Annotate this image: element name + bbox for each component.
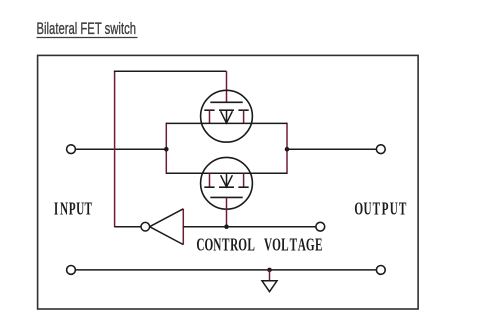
wire: right node to output terminal	[287, 148, 376, 150]
wire: control voltage line	[183, 226, 316, 228]
Q2 body arrow (pointing down to channel)	[226, 173, 228, 187]
Q1 gate plate	[210, 101, 242, 103]
Q2 drain contact vertical	[243, 173, 245, 187]
Q1 source contact vertical	[209, 110, 211, 123]
Q2 channel segment left	[204, 186, 214, 188]
wire: top gate feed horizontal to Q1 gate	[114, 70, 227, 72]
wire: inverter output to gate feed corner	[115, 226, 141, 228]
wire: bottom common rail	[76, 269, 377, 271]
schematic border frame (not a component)	[38, 55, 419, 309]
Q2 drain-source rail	[166, 172, 287, 174]
U1 triangle upper slant	[150, 209, 184, 227]
ground stub (vertical, maroon)	[269, 270, 271, 281]
transistor Q2 (bottom N-channel MOSFET)	[166, 157, 287, 226]
junction: output node dot	[285, 147, 290, 152]
transistor Q1 (top P-channel MOSFET)	[166, 71, 287, 142]
svg-text:INPUT: INPUT	[54, 200, 92, 219]
junction: input node dot	[164, 147, 169, 152]
Q2 gate lead (vertical, maroon)	[226, 197, 228, 226]
title link "Bilateral FET switch"	[37, 19, 138, 38]
Q1 channel segment middle	[219, 109, 234, 111]
U1 triangle lower slant	[150, 227, 184, 245]
Q2 source contact vertical	[209, 173, 211, 187]
Q1 body arrow (pointing down to rail)	[226, 110, 228, 123]
label INPUT	[54, 200, 92, 219]
Q1 channel segment left	[204, 109, 214, 111]
Q2 channel segment right	[238, 186, 248, 188]
terminal: bottom-left common (open circle)	[67, 266, 76, 275]
ground arrow triangle	[262, 281, 277, 292]
junction: ground node dot	[267, 268, 272, 273]
U1 triangle input edge (vertical, maroon)	[182, 209, 184, 245]
wire: right branch vertical (parallel pair, output side)	[286, 123, 288, 174]
wire: left branch vertical (parallel pair, input side)	[165, 123, 167, 174]
terminal: bottom-right common (open circle)	[376, 266, 385, 275]
Q2 body circle	[201, 157, 253, 209]
inverter U1 (NOT gate, pointing left)	[141, 209, 183, 245]
Q1 gate lead (vertical, maroon)	[226, 71, 228, 102]
wire: gate feed vertical from inverter output up to top rail	[114, 71, 116, 228]
label OUTPUT	[354, 200, 406, 219]
Q1 channel segment right	[238, 109, 248, 111]
terminal: INPUT (open circle)	[67, 145, 76, 154]
Q2 channel segment middle	[219, 186, 234, 188]
label CONTROL VOLTAGE	[196, 236, 322, 255]
terminal: CONTROL VOLTAGE (open circle)	[316, 222, 325, 231]
U1 output bubble	[141, 222, 150, 231]
svg-text:Bilateral FET switch: Bilateral FET switch	[37, 19, 137, 38]
Q1 drain contact vertical	[243, 110, 245, 123]
Q1 drain-source rail	[166, 122, 287, 124]
Q1 body circle	[201, 90, 253, 142]
Q2 gate plate	[210, 196, 242, 198]
terminal: OUTPUT (open circle)	[376, 145, 385, 154]
junction: Q2 gate / control node dot	[224, 224, 229, 229]
wire: input terminal to left node	[76, 148, 167, 150]
ground	[262, 270, 277, 292]
